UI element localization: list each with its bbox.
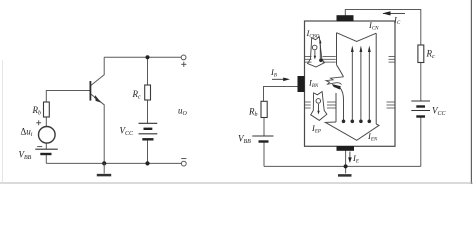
svg-text:Rc: Rc [132, 89, 142, 101]
svg-text:IBN: IBN [308, 78, 319, 90]
svg-text:VBB: VBB [19, 150, 32, 162]
svg-text:ICN: ICN [368, 20, 379, 32]
svg-text:VCC: VCC [120, 126, 135, 138]
svg-text:Δui: Δui [21, 127, 33, 139]
svg-text:IC: IC [393, 15, 401, 27]
svg-text:IB: IB [270, 67, 277, 79]
svg-text:IEP: IEP [311, 123, 321, 135]
svg-text:uO: uO [178, 106, 188, 118]
svg-text:Rb: Rb [248, 107, 258, 119]
svg-text:IE: IE [352, 153, 359, 165]
svg-text:Rb: Rb [32, 105, 42, 117]
svg-text:VCC: VCC [432, 106, 447, 118]
svg-text:VBB: VBB [238, 134, 251, 146]
svg-text:Rc: Rc [426, 49, 436, 61]
svg-text:ICBO: ICBO [306, 28, 320, 40]
svg-text:IEN: IEN [367, 131, 378, 143]
